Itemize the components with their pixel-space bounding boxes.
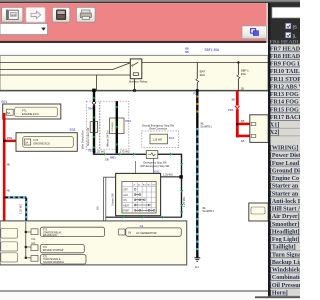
toolbar combobox <box>0 23 48 34</box>
svg-text:With Emergency Stop SW: With Emergency Stop SW <box>140 165 170 168</box>
svg-text:TB4: TB4 <box>88 107 94 111</box>
svg-text:4B: 4B <box>6 163 9 167</box>
svg-text:FR9 FOG LI: FR9 FOG LI <box>270 62 300 68</box>
key switch contact table <box>122 182 156 214</box>
svg-text:Without SW Box: Without SW Box <box>107 129 110 147</box>
wire to battery relay (top) <box>0 62 130 64</box>
svg-text:FR17 BACK: FR17 BACK <box>270 115 300 121</box>
svg-text:ENGINE ECU: ENGINE ECU <box>34 142 51 146</box>
svg-text:FR7 HEADLI: FR7 HEADLI <box>270 46 300 52</box>
svg-text:MB: MB <box>97 206 100 210</box>
svg-text:[Turn Signa: [Turn Signa <box>270 252 300 258</box>
svg-text:MB1: MB1 <box>110 155 116 159</box>
svg-text:STARTER RELAY,: STARTER RELAY, <box>43 231 62 234</box>
svg-text:FR15 FOG L: FR15 FOG L <box>270 107 300 113</box>
svg-text:[S: [S <box>293 24 297 29</box>
svg-text:PD4: PD4 <box>125 119 131 123</box>
svg-text:[Anti-lock B: [Anti-lock B <box>270 199 300 205</box>
battery relay <box>130 59 142 79</box>
svg-text:G1: G1 <box>140 224 144 228</box>
wire V1 vertical <box>181 154 182 218</box>
component / wiring list <box>270 44 300 296</box>
svg-text:X1]: X1] <box>270 123 279 129</box>
svg-text:E1: E1 <box>195 265 199 269</box>
svg-text:10A: 10A <box>31 242 36 245</box>
svg-text:4B: 4B <box>6 189 9 193</box>
svg-text:[Starter an: [Starter an <box>270 184 299 190</box>
svg-text:AC GENERATOR: AC GENERATOR <box>136 231 157 235</box>
svg-text:FR13 FOG L: FR13 FOG L <box>270 92 300 98</box>
svg-text:1M: 1M <box>128 233 131 235</box>
svg-text:OFF: OFF <box>123 190 128 192</box>
svg-text:[Ground Di: [Ground Di <box>270 168 300 174</box>
svg-text:SLAMTB 2: SLAMTB 2 <box>202 210 214 213</box>
svg-text:FR8 HEADLI: FR8 HEADLI <box>270 54 300 60</box>
right panel background <box>268 3 300 298</box>
diagram bottom edge <box>0 290 268 292</box>
svg-text:ON: ON <box>123 200 127 202</box>
front fuse box <box>0 221 187 265</box>
svg-text:SBF1 45A: SBF1 45A <box>205 48 220 52</box>
toolbar button: report <box>2 7 23 22</box>
toolbar button: forward arrow <box>26 7 45 22</box>
cab harness frame (cream band) <box>0 55 268 90</box>
svg-text:Battery Relay: Battery Relay <box>129 80 148 84</box>
svg-text:8B: 8B <box>185 50 189 54</box>
svg-text:PD: PD <box>193 91 197 95</box>
svg-text:Short Connector: Short Connector <box>149 128 167 131</box>
wire branch (white-blue) to fuse box <box>5 196 27 198</box>
svg-text:Starter SW: Starter SW <box>110 193 114 206</box>
wire (mid) with diagonal <box>0 63 130 70</box>
svg-text:HAZARD WARNING: HAZARD WARNING <box>43 261 64 264</box>
svg-text:[Hill Start A: [Hill Start A <box>270 207 300 213</box>
svg-text:1B: 1B <box>241 119 245 123</box>
svg-text:E01: E01 <box>1 100 7 104</box>
svg-text:E03: E03 <box>70 128 76 132</box>
svg-text:J/B: J/B <box>105 157 109 161</box>
svg-text:[Fuse Load: [Fuse Load <box>270 161 300 167</box>
svg-text:[Smoother]: [Smoother] <box>270 222 299 228</box>
svg-text:5A: 5A <box>25 141 28 145</box>
wire relay coil to bus <box>134 79 136 91</box>
toolbar background <box>0 3 266 41</box>
svg-text:ACC: ACC <box>123 194 128 197</box>
fuse F75 <box>31 255 38 261</box>
svg-text:[Starter an: [Starter an <box>270 191 299 197</box>
svg-text:[L: [L <box>293 33 297 38</box>
junction + stub to key switch <box>179 175 182 178</box>
svg-text:SC1: SC1 <box>169 136 175 140</box>
toolbar button: window/panel toggle <box>242 26 266 39</box>
wire W1 (thick) <box>93 91 95 154</box>
switch box (dashed) A <box>86 101 99 149</box>
wire W2 (thick) <box>110 118 124 134</box>
component (right, above fuse box) <box>249 203 268 221</box>
fuse F74 <box>31 245 38 251</box>
fuse F73 <box>31 229 38 235</box>
svg-text:1.25 B(S): 1.25 B(S) <box>112 122 114 132</box>
svg-text:ENGINE ECU: ENGINE ECU <box>22 112 39 116</box>
flow arrows <box>93 97 96 100</box>
svg-text:F72: F72 <box>34 138 39 142</box>
wire W5 horizontal <box>106 217 182 218</box>
component F72 ENGINE ECU <box>16 133 77 152</box>
svg-text:1.25 WG: 1.25 WG <box>152 138 162 141</box>
svg-text:45A: 45A <box>241 72 246 76</box>
svg-text:ENGINE ECU: ENGINE ECU <box>43 235 58 237</box>
fuse box pins (left) <box>1 228 18 238</box>
svg-text:TURN SIGNAL &: TURN SIGNAL & <box>43 258 61 261</box>
svg-text:FR12 ABS V: FR12 ABS V <box>270 84 300 90</box>
bus junctions <box>92 89 96 92</box>
svg-text:[Headlight]: [Headlight] <box>270 229 300 235</box>
svg-text:[WIRING]: [WIRING] <box>270 146 298 152</box>
wire stub above bus <box>96 75 98 91</box>
svg-text:1B: 1B <box>241 139 245 143</box>
svg-text:[Fog Light]: [Fog Light] <box>270 237 300 243</box>
fuse BAT 40A <box>196 63 198 91</box>
internal feed wire <box>25 222 27 258</box>
svg-text:40A: 40A <box>200 73 205 77</box>
svg-text:FR14 FOG L: FR14 FOG L <box>270 100 300 106</box>
svg-text:[Oil Pressur: [Oil Pressur <box>270 283 300 289</box>
toolbar button: print <box>76 7 95 22</box>
wires to fuse box <box>104 177 116 221</box>
switch box (dashed) B <box>100 101 129 149</box>
wire W6 (to ground E1) <box>196 91 198 258</box>
red branch to F72 <box>4 140 22 143</box>
svg-text:ENGINE STOPPER: ENGINE STOPPER <box>43 250 64 252</box>
wire from relay to right <box>142 62 268 64</box>
svg-text:With Switch Box: With Switch Box <box>81 130 85 149</box>
svg-text:[Windshield: [Windshield <box>270 268 300 274</box>
svg-text:15A: 15A <box>31 238 36 241</box>
wire to relay coil <box>0 74 130 76</box>
window top border <box>0 0 300 2</box>
svg-text:1.75 WG: 1.75 WG <box>120 150 130 154</box>
svg-text:1.25 WG: 1.25 WG <box>163 173 173 176</box>
panel checkbox 1 <box>286 23 291 28</box>
wire W3 horizontal <box>93 154 147 155</box>
svg-text:15G: 15G <box>7 136 13 140</box>
svg-text:TB1: TB1 <box>88 148 94 152</box>
svg-text:F71: F71 <box>22 108 27 112</box>
svg-text:1B: 1B <box>241 87 244 91</box>
svg-text:1.25 WG: 1.25 WG <box>182 197 186 207</box>
svg-text:Starter Cutter SW: Starter Cutter SW <box>87 127 90 146</box>
svg-text:FR10 TAILL: FR10 TAILL <box>270 69 300 75</box>
highlighted wire (red) left vertical <box>3 113 6 222</box>
key switch pins <box>134 161 136 173</box>
svg-text:SLAMTB 2: SLAMTB 2 <box>200 125 212 128</box>
svg-text:[Engine Co: [Engine Co <box>270 176 299 182</box>
panel bottom border <box>255 296 300 298</box>
component F71 ENGINE ECU <box>3 104 61 119</box>
panel search input <box>272 7 301 18</box>
svg-text:FR11 STOP: FR11 STOP <box>270 77 300 83</box>
diagram viewport background <box>0 43 268 292</box>
svg-text:[Combinatio: [Combinatio <box>270 275 300 281</box>
svg-text:PD4: PD4 <box>228 108 234 112</box>
ground symbol <box>194 257 200 259</box>
svg-text:[Taillight]: [Taillight] <box>270 245 296 251</box>
svg-text:START: START <box>122 210 130 213</box>
highlighted wire (red) right <box>236 91 239 137</box>
connector boxlet on W1 <box>90 122 97 133</box>
svg-text:1.25 WG: 1.25 WG <box>18 204 22 214</box>
fuse SBF-1 45A <box>237 63 239 92</box>
panel checkbox 2 <box>286 33 291 38</box>
toolbar button: save view <box>52 7 70 22</box>
svg-text:8B: 8B <box>232 97 235 101</box>
svg-text:1.25 WG: 1.25 WG <box>95 150 105 154</box>
svg-text:[Power Dist: [Power Dist <box>270 153 300 159</box>
svg-text:X2]: X2] <box>270 130 279 136</box>
emergency stop switch <box>146 151 158 159</box>
short connector (dashed group) <box>142 131 179 148</box>
svg-text:HEAT: HEAT <box>123 204 130 207</box>
svg-text:5A: 5A <box>7 111 10 115</box>
svg-text:[Air Dryer]: [Air Dryer] <box>270 214 300 220</box>
W3 continuation to V1 <box>158 154 182 155</box>
svg-text:[Horn]: [Horn] <box>270 291 288 297</box>
svg-text:[Backup Lig: [Backup Lig <box>270 260 300 266</box>
